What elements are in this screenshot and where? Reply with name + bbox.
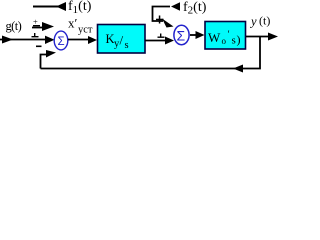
arrowhead summator2 lower input [165,37,174,45]
svg-text:s: s [125,40,129,51]
arrowhead into block K [88,36,97,44]
sign minus for summator1 input 3 [36,46,42,48]
arrowhead summator1 input 3 [46,50,56,58]
wire summator1 input 1 [32,27,44,29]
svg-text:(t): (t) [259,14,270,28]
block W (Wo(s)) [205,22,246,50]
wire summator2 to block W [190,34,197,36]
sign plus for summator2 upper input [159,16,161,24]
sign plus-minus for summator2 lower input [160,34,161,37]
svg-text:y: y [249,15,257,29]
svg-text:o: o [222,36,227,46]
wire f1 horizontal segment [33,6,58,8]
wire feedback riser into summator1 [41,55,48,69]
svg-text:W: W [208,30,221,45]
sign plus-minus for summator1 input 2 [34,33,35,36]
svg-text:): ) [237,33,241,47]
svg-text:/: / [120,33,124,48]
wire feedback: down, across bottom, to riser [41,37,261,69]
arrowhead into block W [196,31,205,39]
arrowhead output y(t) [268,33,278,41]
svg-text:Σ: Σ [177,28,186,44]
summator U2 (circle with sigma) [174,25,189,44]
svg-text:x′: x′ [68,16,78,31]
block K (Ku/s) [98,25,146,54]
svg-text:уст: уст [78,24,93,35]
svg-text:Σ: Σ [58,36,65,48]
arrowhead mid-wire on g input [2,36,13,44]
arrowhead f1 (points left) [56,2,66,11]
wire summator1 to block K [68,39,89,41]
svg-text:f2(t): f2(t) [183,0,207,17]
svg-text:f1(t): f1(t) [68,0,92,16]
arrowhead summator2 upper input (diagonal) [162,19,174,28]
wire f2 drop and horizontal [153,7,171,22]
arrowhead f2 (points left) [171,2,180,11]
wire output from block W [246,36,269,38]
svg-text:s: s [232,35,236,47]
summator U1 (ellipse with sigma) [54,31,68,50]
arrowhead summator1 input 2 [45,36,55,44]
wire block K to summator2 [145,40,166,42]
svg-text:′: ′ [228,30,230,41]
wire g(t) main input [0,39,47,41]
svg-text:g(t): g(t) [6,19,22,33]
arrowhead mid-wire on feedback (points left) [233,65,243,73]
arrowhead summator1 input 1 [42,22,54,31]
